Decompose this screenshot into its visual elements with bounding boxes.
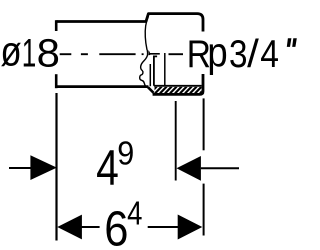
extension line left (from tube end) <box>55 93 57 241</box>
bead lower right thin edge <box>149 64 151 86</box>
svg-text:3: 3 <box>229 33 248 76</box>
socket bottom outline in section with rounded right corner <box>153 74 203 94</box>
svg-text:4: 4 <box>96 140 119 196</box>
centerline short dash in section <box>150 53 160 55</box>
dim 4-9 right arrowhead <box>177 156 201 181</box>
centerline dash after ø18 <box>60 53 72 55</box>
thread bore horizontal line <box>154 85 202 87</box>
centerline dot before section <box>142 53 144 55</box>
centerline dot dash <box>81 53 88 55</box>
dim 6-4 line left segment <box>80 226 100 228</box>
thread bore left vertical edge <box>154 56 157 85</box>
dim 4-9 left arrowhead <box>30 155 56 180</box>
svg-text:/: / <box>247 33 259 76</box>
pipe tube body (press end cylinder) top line <box>56 20 146 23</box>
thread hatching band <box>150 86 207 93</box>
svg-text:1: 1 <box>22 31 37 75</box>
break squiggle line (lower half) <box>140 50 148 87</box>
inch double prime marks <box>287 38 297 47</box>
pressed bead cross-section flare <box>148 50 150 55</box>
centerline long dash <box>99 53 135 55</box>
extension line right lower segment <box>203 184 205 236</box>
section cut vertical edge <box>164 53 166 86</box>
svg-text:9: 9 <box>117 135 134 172</box>
dim 4-9 left tail <box>9 167 31 169</box>
centerline dash before Rp label <box>169 53 184 55</box>
extension line right upper segment <box>203 98 205 150</box>
socket (threaded sleeve) top outline with step and rounded right corner <box>146 14 203 32</box>
extension line middle (press depth) <box>175 101 177 181</box>
dim 6-4 right arrowhead <box>178 215 203 240</box>
svg-text:6: 6 <box>104 202 128 250</box>
dim 6-4 line right segment <box>148 226 179 228</box>
bead outline curve (upper half, thin) <box>145 17 148 51</box>
svg-text:ø: ø <box>0 27 21 74</box>
svg-text:4: 4 <box>260 33 279 76</box>
tube left end bottom edge <box>55 74 58 88</box>
svg-text:4: 4 <box>127 195 142 232</box>
dim 6-4 left arrowhead <box>57 215 82 240</box>
svg-text:p: p <box>207 29 227 76</box>
dim 4-9 right tail <box>201 167 239 169</box>
svg-text:8: 8 <box>37 31 60 75</box>
pipe tube body bottom line <box>56 85 148 88</box>
tube left end top edge <box>55 20 58 31</box>
step diagonal from tube wall down to socket bottom <box>148 87 154 93</box>
